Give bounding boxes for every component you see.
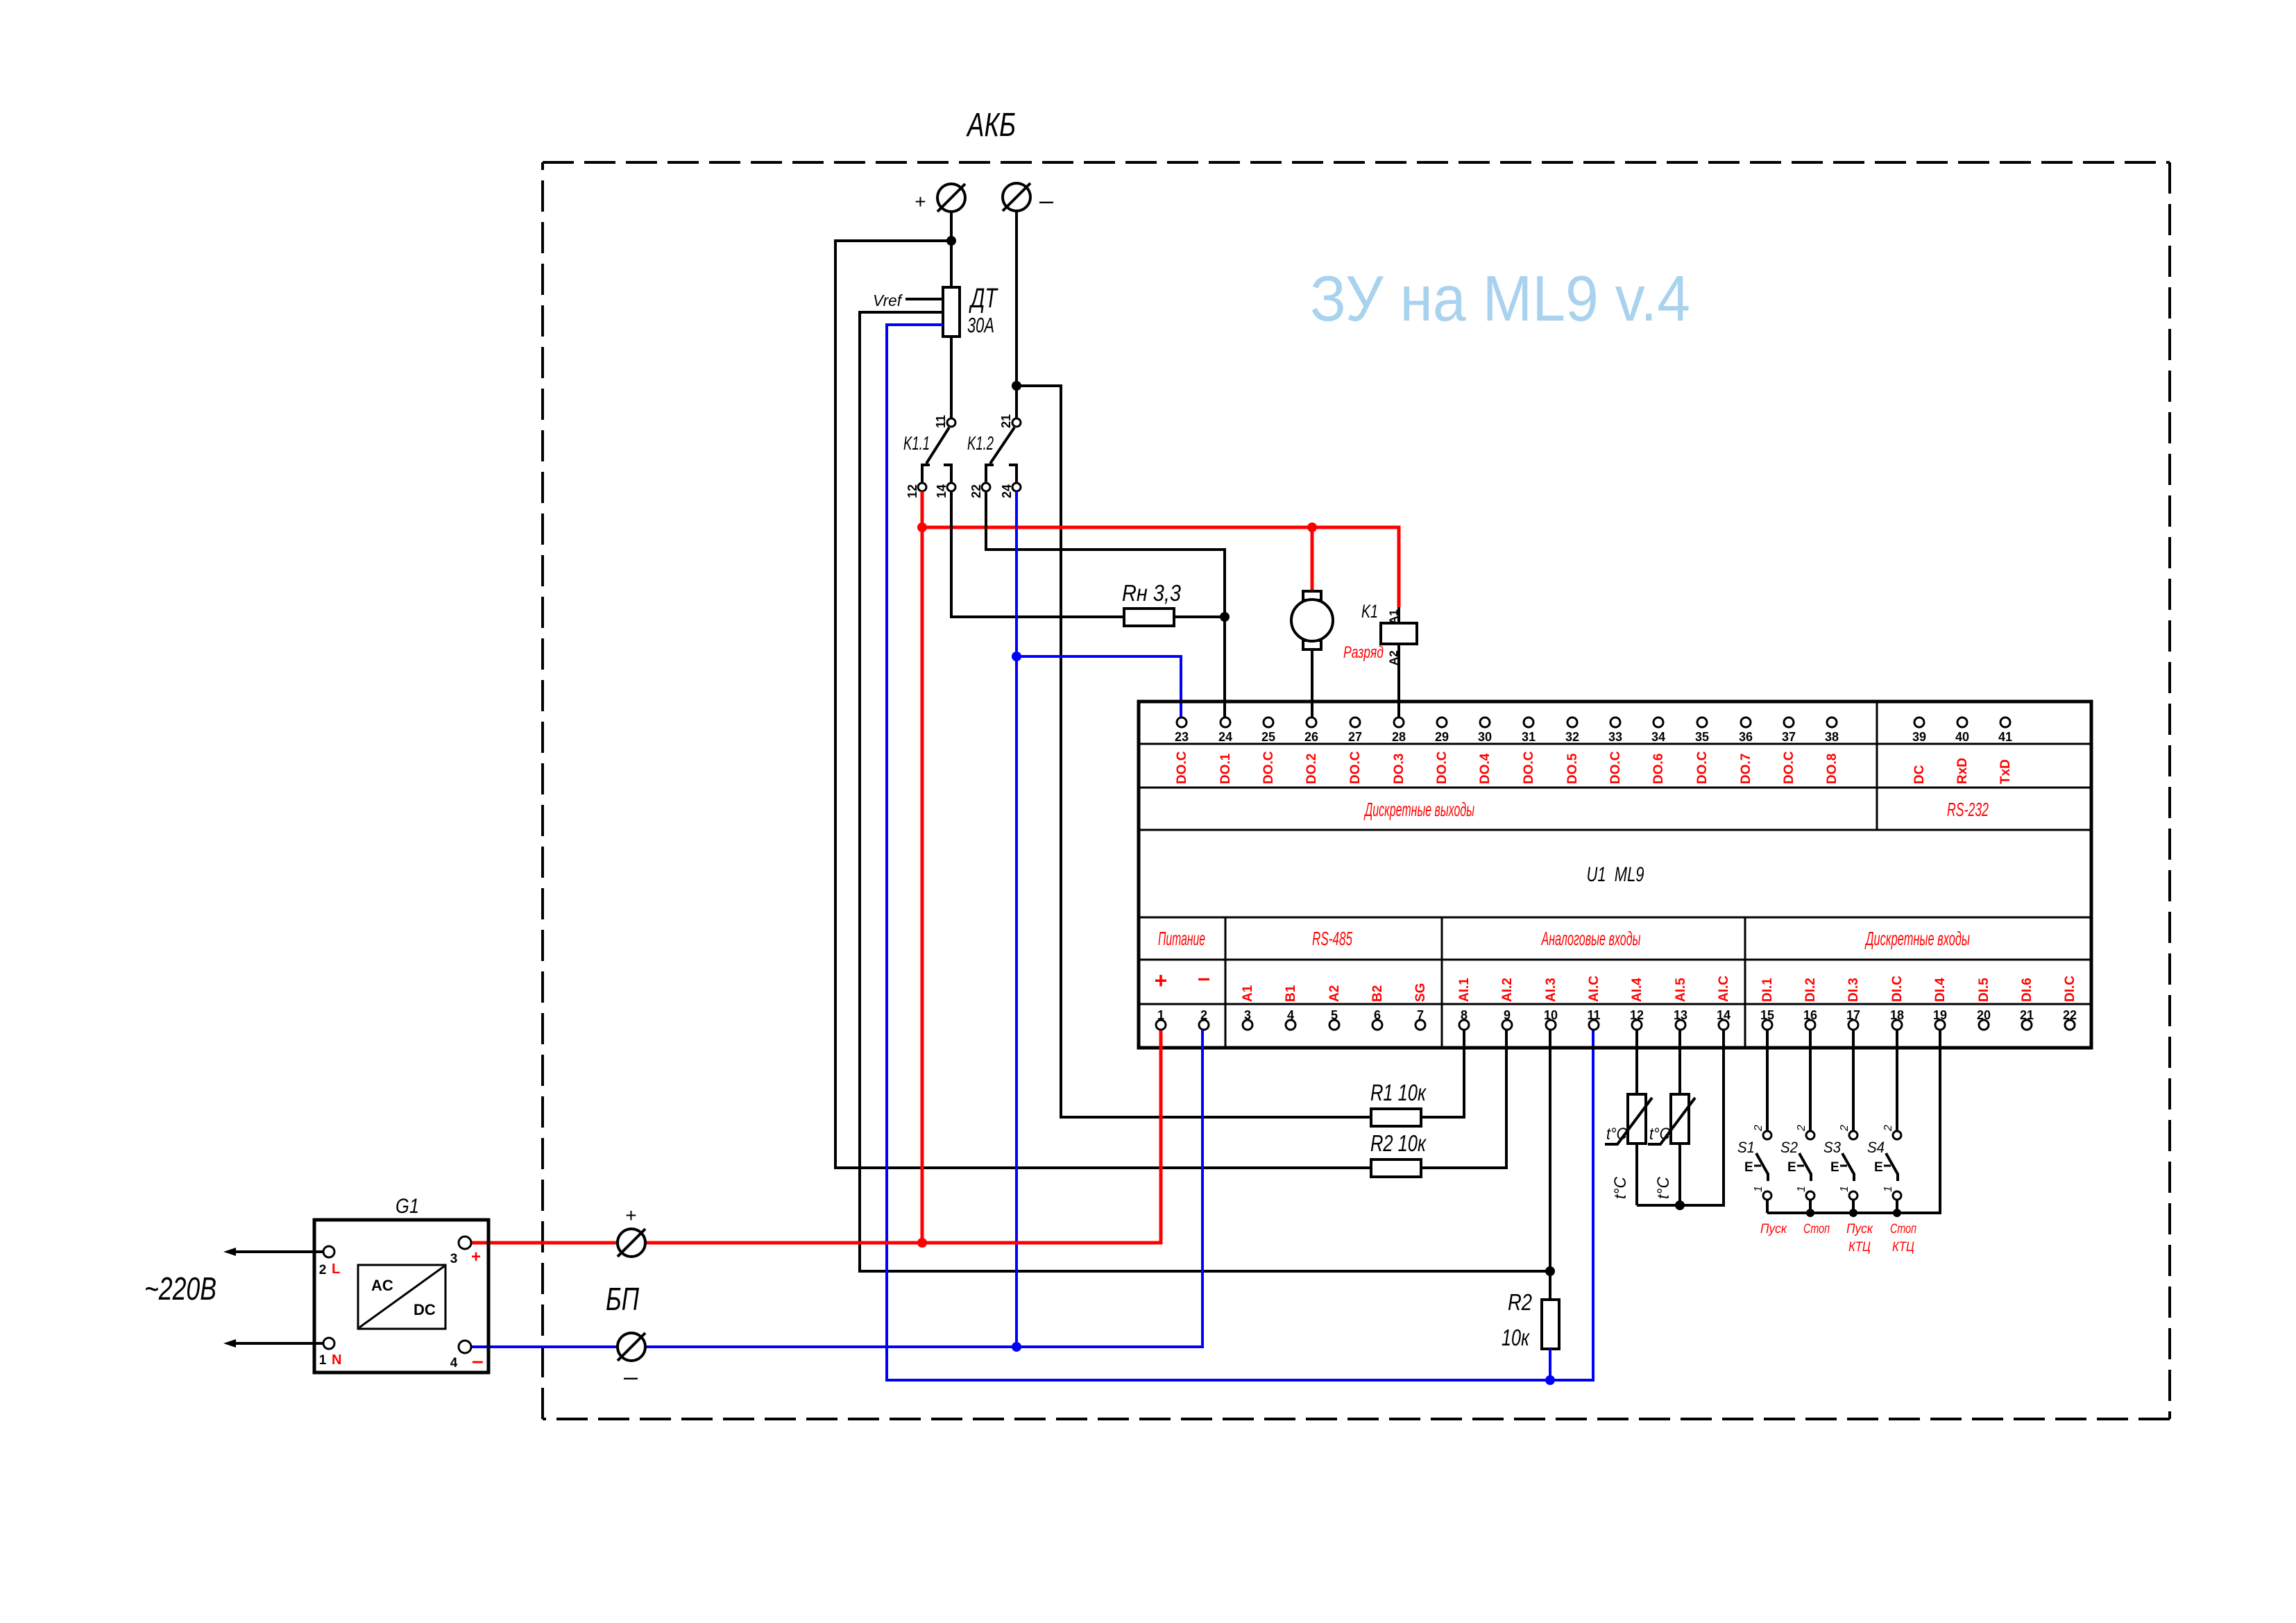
svg-text:DC: DC <box>1912 765 1927 784</box>
svg-text:30: 30 <box>1478 730 1492 744</box>
svg-text:K1.1: K1.1 <box>903 432 930 454</box>
relay contact K1.2 <box>1012 418 1021 427</box>
wire Vref lead <box>905 298 943 300</box>
junction button bus <box>1849 1209 1857 1217</box>
enclosure battery compartment АКБ dashed border <box>543 161 2170 164</box>
svg-text:N: N <box>332 1352 341 1368</box>
pin 37 (DO.C) <box>1784 717 1794 727</box>
wire ДТ output (blue) to AI.C pin 11 <box>887 325 1593 1380</box>
svg-text:–: – <box>472 1350 484 1373</box>
svg-text:20: 20 <box>1977 1008 1991 1022</box>
pin 33 (DO.C) <box>1610 717 1620 727</box>
wire R1 to pin 8 AI.1 <box>1421 1030 1464 1117</box>
svg-text:DO.C: DO.C <box>1175 751 1189 784</box>
svg-text:21: 21 <box>2020 1008 2034 1022</box>
wire contact 22 to pin 24 DO.1 <box>986 491 1225 717</box>
svg-text:DO.7: DO.7 <box>1739 754 1753 784</box>
svg-text:DO.6: DO.6 <box>1651 754 1666 784</box>
pin 2 L <box>323 1246 334 1257</box>
svg-text:7: 7 <box>1417 1008 1424 1022</box>
svg-text:RS-485: RS-485 <box>1312 928 1352 949</box>
resistor R2 10к (horizontal) <box>1371 1159 1421 1177</box>
svg-text:AC: AC <box>371 1277 393 1294</box>
pin 28 (DO.3) <box>1394 717 1404 727</box>
svg-text:DI.5: DI.5 <box>1977 978 1991 1002</box>
pin 32 (DO.5) <box>1567 717 1577 727</box>
svg-text:DO.C: DO.C <box>1435 751 1449 784</box>
pin 5 (A2) <box>1329 1020 1339 1030</box>
wire button common bus to pin 19 DI.4 <box>1767 1030 1940 1213</box>
pin 30 (DO.4) <box>1480 717 1490 727</box>
pin 3 + <box>459 1237 471 1249</box>
svg-text:AI.4: AI.4 <box>1630 978 1644 1002</box>
pin 21 (DI.6) <box>2022 1020 2032 1030</box>
wire motor to pin 26 DO.2 <box>1311 649 1313 717</box>
svg-text:6: 6 <box>1374 1008 1381 1022</box>
junction red node at contact 12 <box>917 522 927 532</box>
svg-text:ЗУ на ML9 v.4: ЗУ на ML9 v.4 <box>1310 262 1690 334</box>
svg-text:t°C: t°C <box>1606 1125 1628 1144</box>
pin 1 N <box>323 1338 334 1349</box>
pin 12 (AI.4) <box>1632 1020 1642 1030</box>
wire − sense branch to R1 <box>1017 386 1371 1117</box>
pin 9 (AI.2) <box>1502 1020 1512 1030</box>
wire Rн right lead <box>1174 615 1225 618</box>
svg-text:A2: A2 <box>1327 985 1342 1002</box>
svg-text:DI.4: DI.4 <box>1933 978 1948 1002</box>
wire red charge bus vertical from contact 12 <box>921 491 924 1243</box>
current sensor ДТ 30А <box>943 287 960 337</box>
relay contact K1.1 <box>947 418 955 427</box>
wire blue − supply G1 pin4 to ML9 pin 2 <box>471 1030 1202 1347</box>
svg-text:RS-232: RS-232 <box>1947 799 1989 820</box>
push button S2 (Стоп) <box>1809 1030 1812 1131</box>
svg-text:Vref: Vref <box>873 291 903 309</box>
svg-text:13: 13 <box>1674 1008 1687 1022</box>
svg-text:S1: S1 <box>1737 1139 1755 1156</box>
junction Rн to DO.1 column <box>1220 612 1230 622</box>
relay coil K1 Разряд <box>1397 607 1400 623</box>
wire ДТ output to AI.3 node <box>860 312 1550 1271</box>
svg-text:S4: S4 <box>1867 1139 1885 1156</box>
svg-text:K1: K1 <box>1361 601 1378 622</box>
svg-text:t°C: t°C <box>1654 1176 1673 1199</box>
svg-text:t°C: t°C <box>1649 1125 1671 1144</box>
svg-text:1: 1 <box>1753 1186 1764 1192</box>
svg-text:1: 1 <box>1157 1008 1164 1022</box>
wire thermistor common bus to pin 14 AI.C <box>1637 1030 1724 1205</box>
svg-text:1: 1 <box>1882 1186 1894 1192</box>
svg-text:26: 26 <box>1304 730 1318 744</box>
svg-text:AI.5: AI.5 <box>1674 978 1688 1002</box>
wire pin 10 AI.3 down to divider <box>1549 1030 1551 1300</box>
svg-text:DI.2: DI.2 <box>1803 978 1818 1002</box>
junction thermistor bus <box>1675 1200 1685 1210</box>
svg-text:9: 9 <box>1504 1008 1511 1022</box>
svg-text:SG: SG <box>1413 983 1428 1002</box>
svg-text:24: 24 <box>1000 484 1014 498</box>
svg-text:18: 18 <box>1890 1008 1904 1022</box>
thermistor t°C at x=2359 <box>1635 1030 1638 1094</box>
pin 38 (DO.8) <box>1827 717 1837 727</box>
svg-text:Стоп: Стоп <box>1890 1222 1916 1237</box>
svg-text:35: 35 <box>1695 730 1709 744</box>
junction battery + node <box>946 236 956 246</box>
push button S1 (Пуск) <box>1766 1030 1769 1131</box>
svg-text:R2: R2 <box>1508 1289 1532 1315</box>
svg-text:Пуск: Пуск <box>1760 1222 1787 1237</box>
wire blue branch to pin 23 DO.C <box>1017 656 1181 717</box>
svg-text:Разряд: Разряд <box>1343 643 1384 662</box>
wire red bus to motor and relay coil <box>922 527 1399 607</box>
motor (discharge load) <box>1303 591 1321 600</box>
pin 15 (DI.1) <box>1762 1020 1772 1030</box>
svg-text:B2: B2 <box>1370 985 1385 1002</box>
svg-text:DO.3: DO.3 <box>1392 754 1406 784</box>
pin 34 (DO.6) <box>1653 717 1663 727</box>
junction button bus <box>1893 1209 1901 1217</box>
junction blue node on G1 − bus <box>1012 1342 1021 1352</box>
wire ДТ to contact K1.1 pin 11 <box>950 337 953 418</box>
svg-text:ДТ: ДТ <box>969 283 998 314</box>
svg-text:21: 21 <box>999 414 1013 428</box>
pin 31 (DO.C) <box>1524 717 1533 727</box>
junction button bus <box>1806 1209 1814 1217</box>
junction red node at G1 output <box>917 1238 927 1248</box>
pin 20 (DI.5) <box>1979 1020 1989 1030</box>
pin 1 (+) <box>1156 1020 1166 1030</box>
svg-text:17: 17 <box>1846 1008 1860 1022</box>
pin 16 (DI.2) <box>1805 1020 1815 1030</box>
thermistor t°C at x=2421 <box>1678 1030 1681 1094</box>
power supply G1 box <box>314 1220 488 1373</box>
svg-text:–: – <box>1198 965 1210 990</box>
svg-text:Питание: Питание <box>1158 928 1205 949</box>
svg-text:2: 2 <box>319 1263 327 1277</box>
resistor R1 10к <box>1371 1109 1421 1126</box>
pin 29 (DO.C) <box>1437 717 1447 727</box>
svg-text:L: L <box>332 1261 340 1277</box>
svg-text:DI.C: DI.C <box>2063 976 2077 1002</box>
svg-text:E: E <box>1744 1160 1753 1175</box>
pin 3 (A1) <box>1243 1020 1252 1030</box>
svg-text:28: 28 <box>1392 730 1406 744</box>
pin 18 (DI.C) <box>1892 1020 1902 1030</box>
push button S3 (Пуск КТЦ) <box>1852 1030 1855 1131</box>
wire red motor branch <box>1311 527 1314 591</box>
pin 6 (B2) <box>1372 1020 1382 1030</box>
svg-text:23: 23 <box>1175 730 1189 744</box>
pin 41 (TxD) <box>2000 717 2010 727</box>
svg-text:КТЦ: КТЦ <box>1848 1240 1871 1255</box>
svg-text:37: 37 <box>1782 730 1796 744</box>
pin 35 (DO.C) <box>1697 717 1707 727</box>
svg-text:DC: DC <box>414 1301 436 1318</box>
svg-text:2: 2 <box>1839 1125 1851 1132</box>
resistor R2 10к (divider, vertical) <box>1542 1300 1559 1349</box>
svg-text:4: 4 <box>1287 1008 1294 1022</box>
junction AI.3 divider node <box>1545 1266 1555 1276</box>
pin 2 (−) <box>1199 1020 1209 1030</box>
svg-text:Пуск: Пуск <box>1846 1222 1873 1237</box>
svg-text:2: 2 <box>1200 1008 1207 1022</box>
svg-text:41: 41 <box>1998 730 2012 744</box>
pin 13 (AI.5) <box>1676 1020 1685 1030</box>
svg-text:БП: БП <box>606 1281 640 1317</box>
svg-text:25: 25 <box>1261 730 1275 744</box>
pin 11 (AI.C) <box>1589 1020 1599 1030</box>
svg-text:DO.4: DO.4 <box>1478 753 1493 784</box>
svg-text:8: 8 <box>1461 1008 1468 1022</box>
svg-text:A1: A1 <box>1241 985 1255 1002</box>
svg-text:2: 2 <box>1882 1125 1894 1132</box>
svg-text:RxD: RxD <box>1955 758 1970 784</box>
PLC controller U1 ML9 outline <box>1139 702 2091 1048</box>
svg-text:12: 12 <box>1630 1008 1644 1022</box>
svg-text:E: E <box>1787 1160 1796 1175</box>
svg-text:4: 4 <box>450 1356 458 1370</box>
wire + sense branch to R2 divider (left vertical) <box>835 241 1371 1168</box>
svg-text:A1: A1 <box>1387 609 1400 624</box>
pin 36 (DO.7) <box>1741 717 1751 727</box>
wire coil K1 to pin 28 DO.3 <box>1397 644 1400 717</box>
svg-text:30А: 30А <box>967 313 994 337</box>
svg-text:34: 34 <box>1651 730 1665 744</box>
svg-text:DO.5: DO.5 <box>1565 753 1580 784</box>
pin 14 (AI.C) <box>1719 1020 1728 1030</box>
svg-text:Дискретные входы: Дискретные входы <box>1864 928 1970 949</box>
junction blue node R2 divider <box>1545 1375 1555 1385</box>
pin 25 (DO.C) <box>1264 717 1273 727</box>
svg-text:11: 11 <box>934 415 948 428</box>
svg-text:14: 14 <box>935 484 949 498</box>
U1 ML9 internal grid lines <box>1139 743 2091 745</box>
svg-text:DO.C: DO.C <box>1695 751 1710 784</box>
pin 27 (DO.C) <box>1350 717 1360 727</box>
svg-text:Стоп: Стоп <box>1803 1222 1830 1237</box>
svg-text:–: – <box>1039 186 1054 214</box>
svg-text:+: + <box>915 191 926 212</box>
svg-text:AI.C: AI.C <box>1587 976 1601 1002</box>
battery positive terminal <box>937 184 965 212</box>
wire red + supply G1 pin3 to ML9 pin 1 <box>471 1030 1161 1243</box>
svg-text:27: 27 <box>1348 730 1362 744</box>
junction red node motor branch <box>1307 522 1317 532</box>
svg-text:K1.2: K1.2 <box>967 432 994 454</box>
svg-text:DO.C: DO.C <box>1348 751 1363 784</box>
junction battery − node <box>1012 381 1021 391</box>
pin 17 (DI.3) <box>1848 1020 1858 1030</box>
svg-text:39: 39 <box>1912 730 1926 744</box>
wire mains L with arrow <box>232 1250 323 1253</box>
svg-text:2: 2 <box>1796 1125 1808 1132</box>
svg-text:Дискретные выходы: Дискретные выходы <box>1363 799 1474 820</box>
svg-text:S3: S3 <box>1823 1139 1842 1156</box>
svg-text:2: 2 <box>1753 1125 1764 1132</box>
svg-text:S2: S2 <box>1780 1139 1798 1156</box>
svg-text:АКБ: АКБ <box>966 107 1016 144</box>
svg-text:G1: G1 <box>396 1195 419 1218</box>
svg-text:E: E <box>1874 1160 1883 1175</box>
svg-text:33: 33 <box>1608 730 1622 744</box>
wire R2 divider bottom to blue bus <box>1549 1349 1551 1380</box>
wire R2 to pin 9 AI.2 <box>1421 1030 1506 1168</box>
wire battery − down to contact K1.2 pin 21 <box>1015 211 1018 418</box>
svg-text:40: 40 <box>1955 730 1969 744</box>
resistor Rн 3,3 <box>1124 609 1174 626</box>
svg-text:38: 38 <box>1825 730 1839 744</box>
svg-text:TxD: TxD <box>1998 759 2013 784</box>
svg-text:10: 10 <box>1544 1008 1558 1022</box>
svg-text:DO.8: DO.8 <box>1825 754 1839 784</box>
svg-text:DI.3: DI.3 <box>1846 978 1861 1002</box>
svg-text:16: 16 <box>1803 1008 1817 1022</box>
svg-text:~220В: ~220В <box>144 1271 216 1307</box>
svg-text:19: 19 <box>1933 1008 1947 1022</box>
terminal БП − output <box>618 1333 645 1361</box>
svg-text:22: 22 <box>2063 1008 2077 1022</box>
svg-text:+: + <box>625 1205 636 1226</box>
svg-text:R1 10к: R1 10к <box>1370 1080 1427 1105</box>
pin 8 (AI.1) <box>1459 1020 1469 1030</box>
svg-text:AI.C: AI.C <box>1717 976 1731 1002</box>
pin 4 − <box>459 1341 471 1353</box>
svg-text:31: 31 <box>1522 730 1536 744</box>
svg-text:R2 10к: R2 10к <box>1370 1130 1427 1156</box>
svg-text:10к: 10к <box>1502 1325 1530 1350</box>
battery negative terminal <box>1003 183 1030 211</box>
svg-text:Rн 3,3: Rн 3,3 <box>1122 580 1182 606</box>
pin 39 (DC) <box>1914 717 1924 727</box>
svg-text:–: – <box>623 1362 638 1391</box>
pin 40 (RxD) <box>1957 717 1967 727</box>
svg-text:32: 32 <box>1565 730 1579 744</box>
AC/DC converter symbol <box>358 1265 445 1329</box>
svg-text:AI.3: AI.3 <box>1544 978 1558 1002</box>
pin 24 (DO.1) <box>1221 717 1230 727</box>
wire blue from contact 24 down to G1 − bus <box>1015 491 1018 1347</box>
svg-text:3: 3 <box>1244 1008 1251 1022</box>
svg-text:AI.2: AI.2 <box>1500 978 1515 1002</box>
terminal БП + output <box>618 1229 645 1257</box>
svg-text:B1: B1 <box>1284 985 1298 1002</box>
svg-text:22: 22 <box>969 484 983 498</box>
svg-text:DI.1: DI.1 <box>1760 978 1775 1002</box>
svg-text:DI.6: DI.6 <box>2020 978 2034 1002</box>
svg-text:3: 3 <box>450 1252 458 1266</box>
junction blue node branch to pin 23 <box>1012 652 1021 661</box>
pin 7 (SG) <box>1415 1020 1425 1030</box>
svg-text:14: 14 <box>1717 1008 1730 1022</box>
svg-text:КТЦ: КТЦ <box>1892 1240 1914 1255</box>
pin 26 (DO.2) <box>1307 717 1316 727</box>
push button S4 (Стоп КТЦ) <box>1896 1030 1898 1131</box>
svg-text:1: 1 <box>1839 1186 1851 1192</box>
svg-text:DO.1: DO.1 <box>1218 753 1233 784</box>
svg-text:DO.C: DO.C <box>1782 751 1796 784</box>
pin 10 (AI.3) <box>1546 1020 1556 1030</box>
svg-text:DO.C: DO.C <box>1608 751 1623 784</box>
svg-text:DI.C: DI.C <box>1890 976 1905 1002</box>
svg-text:+: + <box>471 1248 481 1266</box>
svg-text:AI.1: AI.1 <box>1457 978 1472 1002</box>
svg-text:+: + <box>1155 968 1168 993</box>
svg-text:11: 11 <box>1587 1008 1600 1022</box>
svg-text:12: 12 <box>905 484 919 498</box>
svg-text:U1 ML9: U1 ML9 <box>1587 863 1644 886</box>
svg-text:36: 36 <box>1739 730 1753 744</box>
wire battery + down to current sensor <box>950 212 953 287</box>
wire mains N with arrow <box>232 1342 323 1345</box>
svg-text:29: 29 <box>1435 730 1449 744</box>
svg-text:15: 15 <box>1760 1008 1774 1022</box>
svg-text:DO.C: DO.C <box>1522 751 1536 784</box>
svg-text:t°C: t°C <box>1611 1176 1630 1199</box>
pin 4 (B1) <box>1286 1020 1295 1030</box>
wire contact 14 to resistor Rн <box>951 491 1124 617</box>
svg-text:DO.C: DO.C <box>1261 751 1276 784</box>
svg-text:1: 1 <box>1796 1186 1808 1192</box>
pin 22 (DI.C) <box>2065 1020 2075 1030</box>
pin 19 (DI.4) <box>1935 1020 1945 1030</box>
svg-text:Аналоговые входы: Аналоговые входы <box>1540 928 1640 949</box>
svg-text:5: 5 <box>1331 1008 1338 1022</box>
svg-text:DO.2: DO.2 <box>1304 754 1319 784</box>
pin 23 (DO.C) <box>1177 717 1187 727</box>
svg-text:E: E <box>1830 1160 1839 1175</box>
svg-text:24: 24 <box>1218 730 1232 744</box>
svg-text:1: 1 <box>319 1353 327 1368</box>
